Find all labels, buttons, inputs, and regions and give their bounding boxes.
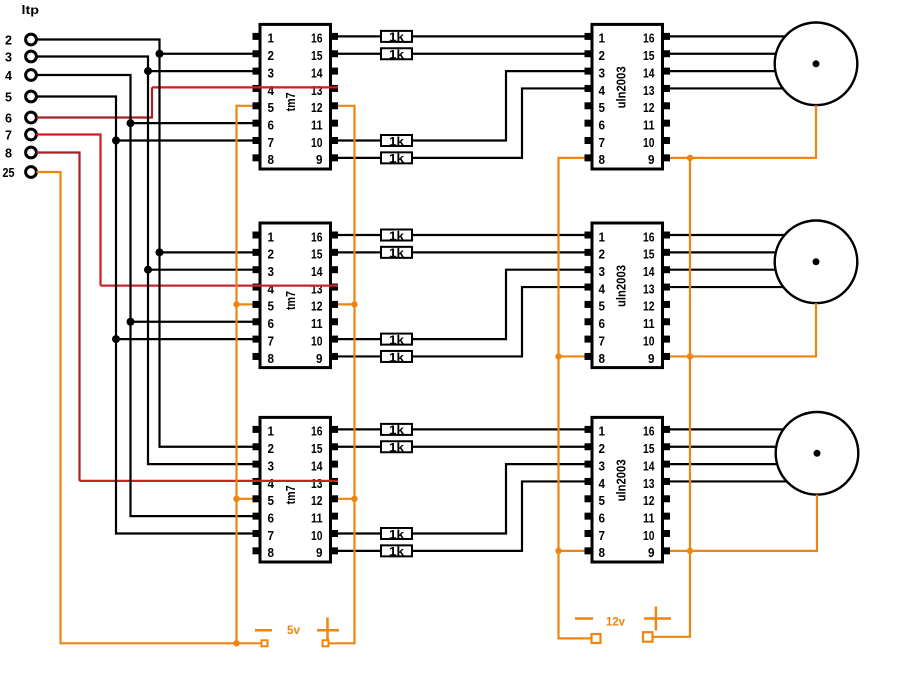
svg-text:2: 2 bbox=[268, 442, 275, 456]
svg-text:10: 10 bbox=[311, 136, 323, 150]
U4 left pin box 2 bbox=[585, 50, 593, 57]
svg-text:ltp: ltp bbox=[22, 3, 40, 17]
svg-text:1: 1 bbox=[599, 425, 606, 439]
resistor R8 1k bbox=[381, 351, 412, 362]
svg-text:3: 3 bbox=[5, 50, 12, 65]
svg-text:4: 4 bbox=[268, 477, 275, 491]
junction lpt4-U2 bbox=[127, 318, 135, 326]
svg-text:14: 14 bbox=[643, 66, 655, 80]
junction +12V U6 bbox=[687, 548, 693, 554]
U6 right pin box 13 bbox=[662, 478, 670, 485]
U2 right pin box 12 bbox=[330, 301, 338, 308]
svg-text:8: 8 bbox=[268, 546, 275, 560]
svg-text:15: 15 bbox=[643, 49, 655, 63]
svg-text:3: 3 bbox=[268, 265, 275, 279]
junction lpt5-U1 bbox=[112, 137, 120, 145]
wire ULN1 pin16 to motor M1 bbox=[670, 35, 785, 37]
wire +12V to motor M1 bbox=[690, 105, 816, 158]
svg-text:10: 10 bbox=[311, 334, 323, 348]
resistor R12 1k bbox=[381, 545, 412, 556]
U2 right pin box 16 bbox=[330, 232, 338, 239]
svg-text:6: 6 bbox=[599, 511, 606, 525]
svg-text:14: 14 bbox=[311, 459, 323, 473]
U3 left pin box 7 bbox=[253, 530, 261, 537]
resistor R11 1k bbox=[381, 528, 412, 539]
U2 left pin box 5 bbox=[253, 301, 261, 308]
wire GND stub to U2 pin5 bbox=[237, 303, 253, 305]
svg-text:11: 11 bbox=[311, 118, 323, 132]
svg-text:8: 8 bbox=[599, 546, 606, 560]
U3 left pin box 1 bbox=[253, 426, 261, 433]
svg-text:9: 9 bbox=[316, 352, 323, 366]
U6 left pin box 2 bbox=[585, 443, 593, 450]
U5 right pin box 11 bbox=[662, 318, 670, 325]
U4 left pin box 7 bbox=[585, 137, 593, 144]
svg-text:2: 2 bbox=[268, 49, 275, 63]
U5 left pin box 3 bbox=[585, 266, 593, 273]
svg-text:7: 7 bbox=[5, 128, 12, 143]
U5 left pin box 2 bbox=[585, 249, 593, 256]
battery B1 plus sign bbox=[317, 629, 339, 632]
U2 right pin box 15 bbox=[330, 249, 338, 256]
U2 left pin box 1 bbox=[253, 232, 261, 239]
U2 left pin box 7 bbox=[253, 336, 261, 343]
svg-text:2: 2 bbox=[599, 49, 606, 63]
battery B2 plus terminal bbox=[643, 632, 653, 642]
motor M2 bbox=[775, 220, 858, 303]
U6 right pin box 9 bbox=[662, 547, 670, 554]
svg-text:4: 4 bbox=[599, 282, 606, 296]
U3 right pin box 11 bbox=[330, 513, 338, 520]
U4 left pin box 5 bbox=[585, 102, 593, 109]
svg-text:1k: 1k bbox=[389, 527, 404, 541]
resistor R5 1k bbox=[381, 230, 412, 241]
svg-text:1k: 1k bbox=[389, 246, 404, 260]
U1 right pin box 10 bbox=[330, 137, 338, 144]
svg-text:16: 16 bbox=[311, 32, 323, 46]
motor M3 bbox=[776, 412, 859, 495]
U1 right pin box 11 bbox=[330, 120, 338, 127]
wire U1 pin16 to ULN pin1 bbox=[338, 35, 585, 37]
svg-text:8: 8 bbox=[599, 153, 606, 167]
resistor R7 1k bbox=[381, 334, 412, 345]
U3 left pin box 5 bbox=[253, 495, 261, 502]
wire GND stub to U3 pin5 bbox=[237, 498, 253, 500]
wire net lpt8 dark red bbox=[37, 153, 80, 481]
svg-text:3: 3 bbox=[268, 459, 275, 473]
U6 right pin box 11 bbox=[662, 513, 670, 520]
resistor R2 1k bbox=[381, 48, 412, 59]
svg-text:1k: 1k bbox=[389, 229, 404, 243]
U6 left pin box 4 bbox=[585, 478, 593, 485]
wire +5V stub to U3 pin12 bbox=[338, 498, 355, 500]
U1 right pin box 13 bbox=[330, 85, 338, 92]
svg-text:12: 12 bbox=[643, 300, 655, 314]
svg-text:15: 15 bbox=[643, 442, 655, 456]
IC U1 tm7 body bbox=[260, 24, 331, 169]
svg-text:9: 9 bbox=[648, 546, 655, 560]
svg-text:1k: 1k bbox=[389, 350, 404, 364]
U4 right pin box 16 bbox=[662, 33, 670, 40]
U3 left pin box 8 bbox=[253, 547, 261, 554]
junction lpt2-U1 bbox=[156, 50, 164, 58]
IC U6 uln2003 body bbox=[592, 417, 663, 562]
U3 right pin box 10 bbox=[330, 530, 338, 537]
svg-text:8: 8 bbox=[599, 352, 606, 366]
wire U2 pin15 to ULN pin2 bbox=[338, 251, 585, 253]
U3 right pin box 13 bbox=[330, 478, 338, 485]
svg-text:5: 5 bbox=[268, 300, 275, 314]
wire U3 pin15 to ULN pin2 bbox=[338, 446, 585, 448]
svg-text:4: 4 bbox=[599, 477, 606, 491]
svg-text:6: 6 bbox=[599, 118, 606, 132]
svg-text:9: 9 bbox=[316, 153, 323, 167]
U5 right pin box 12 bbox=[662, 301, 670, 308]
svg-text:3: 3 bbox=[599, 66, 606, 80]
wire net lpt6 to U1 pin13 bbox=[152, 86, 338, 88]
wire lpt3 branch to U1 pin3 bbox=[148, 70, 253, 72]
resistor R6 1k bbox=[381, 247, 412, 258]
svg-text:9: 9 bbox=[648, 352, 655, 366]
U4 right pin box 14 bbox=[662, 68, 670, 75]
svg-text:4: 4 bbox=[5, 68, 13, 83]
svg-text:7: 7 bbox=[599, 334, 606, 348]
svg-text:6: 6 bbox=[268, 118, 275, 132]
svg-text:7: 7 bbox=[599, 136, 606, 150]
svg-text:25: 25 bbox=[3, 165, 15, 180]
wire net lpt3 bus bbox=[37, 57, 253, 465]
battery B1 plus terminal bbox=[323, 640, 329, 646]
wire net ULN-pin8 orange bbox=[559, 158, 592, 639]
resistor R10 1k bbox=[381, 441, 412, 452]
U1 left pin box 2 bbox=[253, 50, 261, 57]
svg-text:1: 1 bbox=[268, 230, 275, 244]
svg-text:12: 12 bbox=[311, 101, 323, 115]
U3 right pin box 14 bbox=[330, 461, 338, 468]
U1 right pin box 12 bbox=[330, 102, 338, 109]
wire ULN2 pin14 to motor M2 bbox=[670, 269, 775, 271]
wire lpt2 branch to U1 pin2 bbox=[160, 53, 253, 55]
U4 right pin box 13 bbox=[662, 85, 670, 92]
U1 left pin box 1 bbox=[253, 33, 261, 40]
wire lpt4 branch to U2 pin6 bbox=[131, 321, 253, 323]
svg-text:10: 10 bbox=[643, 334, 655, 348]
svg-text:5: 5 bbox=[268, 101, 275, 115]
U2 right pin box 9 bbox=[330, 353, 338, 360]
svg-text:6: 6 bbox=[268, 511, 275, 525]
resistor R3 1k bbox=[381, 135, 412, 146]
U2 right pin box 14 bbox=[330, 266, 338, 273]
svg-text:12: 12 bbox=[643, 494, 655, 508]
wire U2 pin16 to ULN pin1 bbox=[338, 234, 585, 236]
svg-text:4: 4 bbox=[268, 282, 275, 296]
wire ULN1 pin9 stub bbox=[670, 157, 690, 159]
svg-text:2: 2 bbox=[268, 248, 275, 262]
junction lpt5-U2 bbox=[112, 335, 120, 343]
wire ULN3 pin9 stub bbox=[670, 550, 690, 552]
wire net lpt6 dark red bbox=[37, 87, 153, 117]
svg-text:1k: 1k bbox=[389, 545, 404, 559]
motor M2 center dot bbox=[813, 258, 820, 265]
resistor R9 1k bbox=[381, 424, 412, 435]
connector pin 8 circle bbox=[26, 147, 37, 158]
svg-text:15: 15 bbox=[311, 442, 323, 456]
svg-text:13: 13 bbox=[643, 282, 655, 296]
U1 left pin box 8 bbox=[253, 154, 261, 161]
svg-text:2: 2 bbox=[5, 33, 12, 48]
svg-text:4: 4 bbox=[268, 84, 275, 98]
U3 right pin box 9 bbox=[330, 547, 338, 554]
U3 right pin box 12 bbox=[330, 495, 338, 502]
U5 right pin box 10 bbox=[662, 336, 670, 343]
battery B2 12v minus bar bbox=[575, 617, 593, 620]
svg-text:8: 8 bbox=[268, 153, 275, 167]
U5 right pin box 14 bbox=[662, 266, 670, 273]
connector pin 3 circle bbox=[26, 51, 37, 62]
svg-text:11: 11 bbox=[311, 317, 323, 331]
wire +12V to motor M2 bbox=[690, 303, 816, 356]
svg-text:5: 5 bbox=[268, 494, 275, 508]
svg-text:12v: 12v bbox=[606, 617, 626, 629]
U6 left pin box 8 bbox=[585, 547, 593, 554]
svg-text:9: 9 bbox=[316, 546, 323, 560]
wire ULN2 pin16 to motor M2 bbox=[670, 234, 785, 236]
wire U1 pin15 to ULN pin2 bbox=[338, 53, 585, 55]
svg-text:8: 8 bbox=[5, 146, 12, 161]
junction lpt4-U1 bbox=[127, 119, 135, 127]
U1 right pin box 14 bbox=[330, 68, 338, 75]
U1 left pin box 5 bbox=[253, 102, 261, 109]
resistor R4 1k bbox=[381, 152, 412, 163]
wire net lpt7 red bbox=[37, 135, 101, 286]
svg-text:4: 4 bbox=[599, 84, 606, 98]
svg-text:13: 13 bbox=[643, 84, 655, 98]
svg-text:5v: 5v bbox=[287, 625, 301, 637]
battery B1 minus terminal bbox=[262, 640, 268, 646]
svg-text:6: 6 bbox=[268, 317, 275, 331]
U3 left pin box 6 bbox=[253, 513, 261, 520]
svg-text:14: 14 bbox=[643, 459, 655, 473]
U3 left pin box 2 bbox=[253, 443, 261, 450]
svg-text:7: 7 bbox=[268, 334, 275, 348]
U5 right pin box 16 bbox=[662, 232, 670, 239]
svg-text:10: 10 bbox=[643, 529, 655, 543]
wire +12V to motor M3 bbox=[690, 495, 817, 551]
svg-text:16: 16 bbox=[643, 425, 655, 439]
svg-text:9: 9 bbox=[648, 153, 655, 167]
wire U1 pin10 to ULN pin3 bbox=[338, 71, 585, 140]
connector pin 6 circle bbox=[26, 112, 37, 123]
svg-text:12: 12 bbox=[311, 300, 323, 314]
U4 left pin box 6 bbox=[585, 120, 593, 127]
svg-text:uln2003: uln2003 bbox=[615, 459, 629, 501]
U5 right pin box 9 bbox=[662, 353, 670, 360]
U2 left pin box 2 bbox=[253, 249, 261, 256]
U6 left pin box 6 bbox=[585, 513, 593, 520]
wire ULN2 pin9 stub bbox=[670, 355, 690, 357]
junction GND at 5v minus bbox=[233, 640, 239, 646]
resistor R1 1k bbox=[381, 31, 412, 42]
svg-text:1k: 1k bbox=[389, 152, 404, 166]
battery B1 5v minus bar bbox=[255, 629, 272, 632]
svg-text:7: 7 bbox=[268, 529, 275, 543]
wire ULN3 pin14 to motor M3 bbox=[670, 463, 777, 465]
wire lpt5 branch to U2 pin7 bbox=[116, 338, 253, 340]
junction pin8 net U5 bbox=[555, 353, 561, 359]
svg-text:1: 1 bbox=[599, 32, 606, 46]
battery B2 minus terminal bbox=[592, 634, 601, 643]
wire U2 pin10 to ULN pin3 bbox=[338, 270, 585, 339]
svg-text:5: 5 bbox=[599, 101, 606, 115]
svg-text:1: 1 bbox=[268, 32, 275, 46]
U4 left pin box 1 bbox=[585, 33, 593, 40]
connector pin 2 circle bbox=[26, 34, 37, 45]
IC U5 uln2003 body bbox=[592, 223, 663, 368]
wire U3 pin10 to ULN pin3 bbox=[338, 464, 585, 533]
wire GND vertical to tm7 pin5s bbox=[237, 106, 253, 644]
wire pin8 stub to ULN3 bbox=[559, 550, 585, 552]
svg-text:6: 6 bbox=[599, 317, 606, 331]
wire U3 pin9 to ULN pin4 bbox=[338, 481, 585, 550]
U1 left pin box 4 bbox=[253, 85, 261, 92]
svg-text:1: 1 bbox=[268, 425, 275, 439]
U6 left pin box 5 bbox=[585, 495, 593, 502]
svg-text:1k: 1k bbox=[389, 30, 404, 44]
junction lpt3-U2 bbox=[144, 266, 152, 274]
wire net lpt7 to U2 pin13 bbox=[101, 285, 339, 287]
U5 left pin box 8 bbox=[585, 353, 593, 360]
wire lpt4 branch to U1 pin6 bbox=[131, 122, 253, 124]
U2 right pin box 13 bbox=[330, 284, 338, 291]
wire net lpt4 bus bbox=[37, 75, 253, 516]
svg-text:uln2003: uln2003 bbox=[615, 265, 629, 307]
U4 right pin box 12 bbox=[662, 102, 670, 109]
connector pin 25 circle bbox=[26, 167, 37, 178]
motor M1 center dot bbox=[813, 60, 820, 67]
U5 left pin box 4 bbox=[585, 284, 593, 291]
svg-text:10: 10 bbox=[311, 529, 323, 543]
svg-text:1k: 1k bbox=[389, 333, 404, 347]
wire lpt5 branch to U1 pin7 bbox=[116, 139, 253, 141]
svg-text:16: 16 bbox=[643, 32, 655, 46]
svg-text:7: 7 bbox=[268, 136, 275, 150]
U5 right pin box 15 bbox=[662, 249, 670, 256]
svg-text:uln2003: uln2003 bbox=[615, 66, 629, 108]
U1 left pin box 6 bbox=[253, 120, 261, 127]
junction GND U2 bbox=[233, 301, 239, 307]
svg-text:15: 15 bbox=[311, 248, 323, 262]
U2 left pin box 3 bbox=[253, 266, 261, 273]
wire ULN1 pin15 to motor M1 bbox=[670, 53, 776, 55]
svg-text:3: 3 bbox=[268, 66, 275, 80]
wire net GND from lpt25 bbox=[37, 172, 262, 643]
svg-text:tm7: tm7 bbox=[284, 291, 298, 310]
svg-text:11: 11 bbox=[643, 317, 655, 331]
IC U4 uln2003 body bbox=[592, 24, 663, 169]
wire net lpt2 bus bbox=[37, 40, 253, 447]
svg-text:2: 2 bbox=[599, 248, 606, 262]
U1 right pin box 9 bbox=[330, 154, 338, 161]
svg-text:14: 14 bbox=[311, 66, 323, 80]
wire net lpt5 bus bbox=[37, 97, 253, 534]
motor M3 center dot bbox=[814, 450, 821, 457]
U1 right pin box 16 bbox=[330, 33, 338, 40]
U4 left pin box 4 bbox=[585, 85, 593, 92]
connector pin 5 circle bbox=[26, 91, 37, 102]
svg-text:tm7: tm7 bbox=[284, 92, 298, 111]
junction lpt2-U2 bbox=[156, 248, 164, 256]
wire net +12V vertical bbox=[653, 158, 691, 637]
U3 right pin box 16 bbox=[330, 426, 338, 433]
svg-text:13: 13 bbox=[311, 84, 323, 98]
svg-text:1k: 1k bbox=[389, 134, 404, 148]
U6 right pin box 14 bbox=[662, 461, 670, 468]
svg-text:13: 13 bbox=[311, 282, 323, 296]
svg-text:15: 15 bbox=[311, 49, 323, 63]
connector pin 4 circle bbox=[26, 70, 37, 81]
svg-text:12: 12 bbox=[311, 494, 323, 508]
wire net +5V vertical to tm7 pin12s bbox=[329, 106, 355, 644]
U5 left pin box 6 bbox=[585, 318, 593, 325]
U2 left pin box 6 bbox=[253, 318, 261, 325]
svg-text:14: 14 bbox=[311, 265, 323, 279]
junction +12V U4 bbox=[687, 155, 693, 161]
IC U2 tm7 body bbox=[260, 223, 331, 368]
wire U2 pin9 to ULN pin4 bbox=[338, 287, 585, 356]
svg-text:1k: 1k bbox=[389, 48, 404, 62]
U1 left pin box 3 bbox=[253, 68, 261, 75]
svg-text:14: 14 bbox=[643, 265, 655, 279]
svg-text:3: 3 bbox=[599, 265, 606, 279]
wire net lpt8 to U3 pin13 bbox=[80, 480, 339, 482]
svg-text:1k: 1k bbox=[389, 423, 404, 437]
svg-text:11: 11 bbox=[643, 511, 655, 525]
wire U3 pin16 to ULN pin1 bbox=[338, 428, 585, 430]
wire ULN3 pin13 to motor M3 bbox=[670, 480, 787, 482]
svg-text:8: 8 bbox=[268, 352, 275, 366]
svg-text:3: 3 bbox=[599, 459, 606, 473]
svg-text:6: 6 bbox=[5, 111, 12, 126]
junction +5V U3 bbox=[351, 496, 357, 502]
U2 left pin box 4 bbox=[253, 284, 261, 291]
U5 right pin box 13 bbox=[662, 284, 670, 291]
U3 right pin box 15 bbox=[330, 443, 338, 450]
U4 right pin box 9 bbox=[662, 154, 670, 161]
U4 right pin box 10 bbox=[662, 137, 670, 144]
svg-text:16: 16 bbox=[311, 230, 323, 244]
U1 left pin box 7 bbox=[253, 137, 261, 144]
svg-text:2: 2 bbox=[599, 442, 606, 456]
svg-text:1k: 1k bbox=[389, 441, 404, 455]
U6 right pin box 15 bbox=[662, 443, 670, 450]
svg-text:16: 16 bbox=[311, 425, 323, 439]
wire +5V stub to U2 pin12 bbox=[338, 303, 355, 305]
svg-text:13: 13 bbox=[311, 477, 323, 491]
svg-text:5: 5 bbox=[599, 300, 606, 314]
svg-text:11: 11 bbox=[311, 511, 323, 525]
wire ULN1 pin13 to motor M1 bbox=[670, 87, 783, 89]
U2 right pin box 10 bbox=[330, 336, 338, 343]
U4 left pin box 8 bbox=[585, 154, 593, 161]
U5 left pin box 1 bbox=[585, 232, 593, 239]
connector pin 7 circle bbox=[26, 129, 37, 140]
junction lpt3-U1 bbox=[144, 67, 152, 75]
svg-text:16: 16 bbox=[643, 230, 655, 244]
U4 right pin box 15 bbox=[662, 50, 670, 57]
junction GND U3 bbox=[233, 496, 239, 502]
motor M1 bbox=[775, 23, 858, 106]
U1 right pin box 15 bbox=[330, 50, 338, 57]
